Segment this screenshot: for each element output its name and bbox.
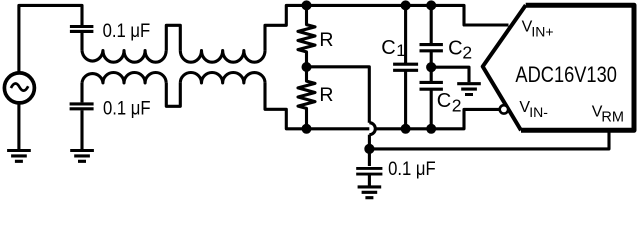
- capacitor 0.1uF (top input): [70, 27, 94, 32]
- wire T1 bottom winding to lower cap: [80, 83, 83, 103]
- svg-text:RM: RM: [601, 110, 624, 126]
- transformer T2 bottom winding: [180, 73, 265, 83]
- svg-text:R: R: [319, 84, 333, 106]
- capacitor C1: [393, 5, 418, 128]
- svg-text:R: R: [319, 29, 333, 51]
- node: top rail junction C1: [401, 0, 411, 10]
- wire T2 bottom output to bottom rail / VIN-: [265, 83, 500, 129]
- svg-text:C: C: [448, 38, 462, 60]
- svg-text:0.1 μF: 0.1 μF: [388, 159, 436, 180]
- svg-text:2: 2: [462, 43, 472, 63]
- capacitor C2 (top): [420, 5, 443, 67]
- node: bypass junction: [364, 144, 374, 154]
- node: bottom rail junction C1: [401, 124, 411, 134]
- ground (under lower cap): [70, 151, 94, 162]
- resistor R (top): [298, 5, 315, 67]
- node: top rail junction C2: [426, 0, 436, 10]
- svg-text:C: C: [437, 90, 451, 112]
- svg-text:ADC16V130: ADC16V130: [515, 62, 617, 87]
- inverting input bubble: [500, 105, 508, 113]
- transformer T1 bottom winding: [82, 72, 166, 82]
- op-amp U1 ADC16V130 outline: [521, 5, 634, 130]
- wire lower cap to ground: [80, 110, 83, 149]
- transformer T2 top winding: [180, 51, 265, 63]
- wire bypass cap to ground: [368, 176, 371, 186]
- wire T2 top output to top rail / VIN+: [265, 5, 509, 50]
- capacitor 0.1uF (lower input): [70, 104, 94, 109]
- svg-text:IN-: IN-: [529, 104, 548, 120]
- wire VRM to bypass node: [369, 130, 609, 149]
- capacitor C2 (bottom): [420, 67, 443, 129]
- svg-text:C: C: [381, 37, 395, 59]
- svg-text:IN+: IN+: [531, 23, 553, 39]
- wire C2 midpoint to ground: [431, 67, 469, 82]
- node: bottom rail junction R: [302, 124, 312, 134]
- ground (under source): [7, 151, 31, 162]
- resistor R (bottom): [298, 67, 315, 129]
- wire source bottom to ground: [17, 103, 20, 149]
- ground (C2 midpoint): [457, 84, 481, 95]
- transformer T1 top winding: [82, 51, 166, 63]
- wire jog T1 top to T2 top: [166, 25, 180, 50]
- ground (bypass): [358, 187, 382, 198]
- wire cap to T1 primary: [80, 33, 83, 51]
- sine symbol inside source: [11, 84, 28, 91]
- svg-text:1: 1: [396, 41, 405, 60]
- wire source top to first cap: [19, 5, 82, 72]
- capacitor 0.1uF (bypass): [356, 168, 382, 174]
- svg-text:0.1 μF: 0.1 μF: [103, 98, 151, 119]
- wire center tap to bypass node: [307, 67, 370, 123]
- svg-text:0.1 μF: 0.1 μF: [103, 21, 151, 42]
- node: top rail junction R: [302, 0, 312, 10]
- op-amp U1 left chevron edges: [483, 5, 526, 130]
- AC source V1: [4, 73, 34, 103]
- node: bottom rail junction C2: [426, 124, 436, 134]
- node: C2 center: [426, 62, 436, 72]
- svg-text:2: 2: [452, 96, 462, 116]
- node: R center tap: [302, 62, 312, 72]
- wire jog T1 bottom to T2 bottom: [166, 83, 180, 106]
- wire hop node down to cap: [368, 135, 371, 166]
- wire hop over bottom rail: [369, 123, 375, 135]
